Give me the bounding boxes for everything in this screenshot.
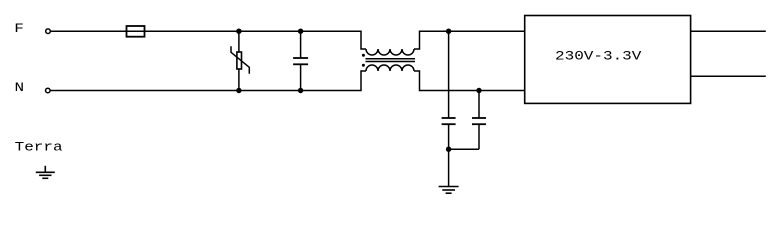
svg-text:F: F — [14, 22, 24, 36]
svg-text:N: N — [15, 81, 25, 95]
svg-text:230V-3.3V: 230V-3.3V — [555, 49, 642, 63]
svg-text:Terra: Terra — [15, 140, 63, 154]
